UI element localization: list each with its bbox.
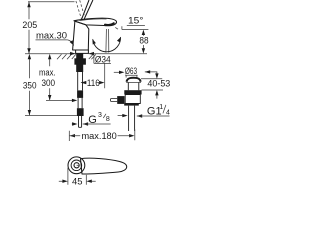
svg-text:max.30: max.30 xyxy=(36,29,67,40)
dimension 205 vertical line xyxy=(28,2,30,54)
water stream xyxy=(106,29,109,53)
svg-text:205: 205 xyxy=(22,19,37,30)
dimension 40-53 xyxy=(155,73,158,78)
handle top view blade xyxy=(81,158,127,174)
supply hose lower xyxy=(78,98,82,108)
svg-text:4: 4 xyxy=(166,109,170,116)
label Ø34 xyxy=(94,54,111,64)
svg-text:max.: max. xyxy=(39,66,56,77)
pop-up plug neck xyxy=(128,83,139,91)
svg-text:Ø63: Ø63 xyxy=(125,65,137,76)
joystick handle dashed position xyxy=(76,0,85,18)
pop-up side rod nut xyxy=(117,96,124,104)
svg-text:300: 300 xyxy=(42,77,56,88)
dimension 350 vertical line xyxy=(28,58,30,116)
wire: 350 extension line to hose end xyxy=(25,115,77,117)
threaded shank dark xyxy=(76,54,83,73)
dimension 116 xyxy=(81,63,105,88)
pop-up tailpipe xyxy=(129,106,135,131)
pop-up waste body xyxy=(125,95,140,104)
faucet body xyxy=(73,21,89,50)
handle pivot inner circle xyxy=(71,160,82,171)
svg-text:8: 8 xyxy=(106,116,110,123)
label G3/8 with arrows at nipple xyxy=(72,123,73,125)
pop-up waste plug dome xyxy=(127,78,141,82)
pop-up body bottom flange xyxy=(124,104,139,106)
hose end nut G3/8 xyxy=(77,108,84,116)
svg-text:max.180: max.180 xyxy=(82,130,117,141)
deck hatching left xyxy=(57,54,76,59)
base flange xyxy=(76,50,89,53)
joystick handle solid raised xyxy=(81,0,93,20)
dimension 45 xyxy=(68,168,86,185)
spout aerator crescent xyxy=(105,23,114,25)
spout inner top edge xyxy=(80,19,107,21)
wire: 15 degree reference line with riser xyxy=(122,26,148,29)
svg-text:45: 45 xyxy=(72,176,82,187)
deck hatching right xyxy=(89,54,96,59)
handle pivot outer circle xyxy=(68,157,85,174)
svg-text:3: 3 xyxy=(98,112,102,119)
faucet spout lever wing xyxy=(74,18,117,26)
pop-up seal ring xyxy=(124,90,141,94)
wire: max.300 extension line with arrow to hose xyxy=(46,99,73,101)
dimension max.180 xyxy=(69,129,135,141)
svg-text:15°: 15° xyxy=(128,15,144,26)
supply hose upper xyxy=(78,72,83,90)
svg-text:350: 350 xyxy=(23,80,37,91)
svg-text:116: 116 xyxy=(87,77,100,88)
hose nut xyxy=(77,90,83,98)
svg-text:Ø34: Ø34 xyxy=(95,53,111,64)
label G1 1/4 with arrows at tailpipe xyxy=(118,115,124,117)
svg-text:1: 1 xyxy=(159,104,163,111)
hose nipple xyxy=(79,116,82,127)
label Ø34 arrows at deck xyxy=(70,53,94,55)
wire: top extension line at lever top xyxy=(28,1,75,3)
deck line xyxy=(25,53,147,55)
pop-up side rod xyxy=(111,99,118,102)
svg-text:88: 88 xyxy=(139,35,148,46)
svg-text:G: G xyxy=(88,114,97,126)
dimension max.300 vertical line xyxy=(49,58,51,101)
handle center logo xyxy=(74,163,79,168)
svg-text:40-53: 40-53 xyxy=(147,77,170,88)
locknut xyxy=(74,58,86,64)
dimension 88 xyxy=(142,34,144,49)
swing arc arrow under spout xyxy=(93,37,121,52)
